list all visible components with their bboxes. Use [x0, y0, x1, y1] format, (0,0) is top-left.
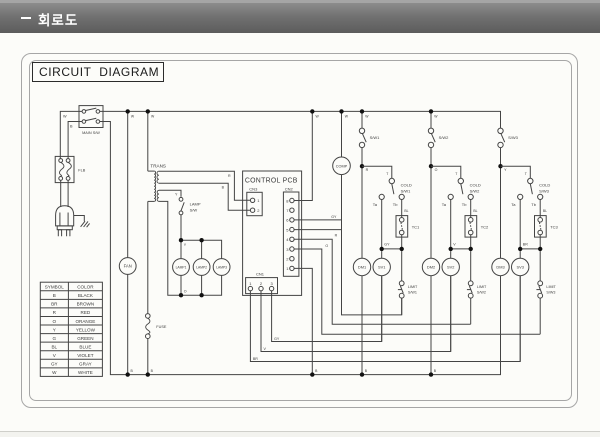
svg-text:S/W: S/W [190, 207, 198, 212]
node bus BR channel 3 [518, 243, 542, 251]
svg-text:O: O [184, 289, 187, 293]
valve SV2 [442, 251, 459, 276]
wire SV3 down [519, 276, 521, 362]
wire CN2 pin6 GY to compressor line [294, 215, 341, 220]
svg-text:S/W3: S/W3 [508, 135, 519, 140]
node bus V channel 2 [449, 243, 473, 251]
junction node Y channel 3 [498, 164, 507, 172]
svg-text:W: W [63, 115, 67, 119]
motor DM2 [422, 258, 439, 275]
svg-text:B: B [365, 369, 368, 373]
wire Tb contact to TC3 [540, 200, 547, 218]
wire branch to COLD S/W2 [431, 166, 461, 178]
svg-text:WHITE: WHITE [78, 370, 93, 375]
switch S/W3 [498, 128, 519, 147]
wire branch to COLD S/W3 [501, 166, 531, 178]
svg-text:Ta: Ta [442, 202, 447, 207]
svg-text:T: T [455, 172, 457, 176]
svg-text:B: B [53, 293, 56, 298]
svg-text:GY: GY [51, 362, 58, 367]
panel inner border [29, 60, 572, 401]
wire DM3 to B bus [500, 276, 502, 375]
wire lamp top bus Y [179, 215, 222, 259]
wire DM1 to B bus [361, 276, 363, 375]
svg-text:BR: BR [51, 302, 58, 307]
svg-text:ORANGE: ORANGE [75, 319, 95, 324]
svg-text:LAMP: LAMP [190, 202, 201, 207]
svg-text:4: 4 [286, 237, 289, 242]
svg-text:LIMIT: LIMIT [408, 285, 418, 289]
lamp LAMP1 [173, 259, 190, 276]
svg-text:B: B [222, 186, 225, 190]
motor DM1 [353, 258, 370, 275]
svg-text:BL: BL [404, 209, 408, 213]
svg-text:CN3: CN3 [249, 187, 258, 192]
svg-text:W: W [151, 115, 155, 119]
svg-text:Y: Y [175, 192, 178, 196]
fan motor FAN [119, 258, 136, 275]
compressor COMP [333, 111, 351, 174]
svg-text:B: B [151, 369, 154, 373]
wire FLB to plug [61, 180, 68, 207]
svg-text:W: W [365, 115, 369, 119]
wire Y secondary tap to lamp switch [159, 190, 181, 197]
fuse FUSE [146, 314, 167, 375]
svg-text:Ta: Ta [373, 202, 378, 207]
valve SV1 [373, 251, 390, 276]
wire SV1 down [381, 276, 383, 342]
lamp LAMP3 [213, 259, 230, 276]
svg-text:VIOLET: VIOLET [77, 353, 94, 358]
svg-text:W: W [434, 115, 438, 119]
control board CONTROL PCB [243, 171, 302, 295]
svg-text:LAMP2: LAMP2 [196, 266, 207, 270]
svg-text:B: B [315, 369, 318, 373]
svg-text:SYMBOL: SYMBOL [45, 285, 65, 290]
svg-text:FLB: FLB [78, 169, 85, 173]
svg-text:Tb: Tb [462, 202, 467, 207]
svg-text:W: W [316, 115, 320, 119]
wire CN2 pin3 O to LIMIT S/W3 [294, 244, 540, 334]
svg-text:TC2: TC2 [481, 224, 489, 229]
wire CN2 pin1 to B bus [294, 268, 312, 374]
svg-text:S/W1: S/W1 [401, 188, 412, 193]
svg-text:Tb: Tb [531, 202, 536, 207]
svg-text:S/W2: S/W2 [470, 188, 481, 193]
wire LIMIT S/W2 down [470, 298, 472, 324]
wire Ta contact down [381, 200, 383, 249]
svg-text:DM2: DM2 [427, 265, 435, 270]
svg-text:BR: BR [253, 357, 258, 361]
switch S/W2 [428, 128, 449, 147]
svg-text:LAMP3: LAMP3 [216, 266, 227, 270]
svg-text:W: W [345, 115, 349, 119]
svg-text:CONTROL PCB: CONTROL PCB [245, 178, 298, 185]
transformer TRANS [150, 164, 166, 202]
svg-text:W: W [52, 370, 57, 375]
svg-text:B: B [131, 369, 134, 373]
connector CN1 [246, 272, 278, 294]
title box CIRCUIT DIAGRAM [32, 62, 164, 82]
svg-text:O: O [435, 168, 438, 172]
svg-text:6: 6 [286, 218, 289, 223]
wire S/W1 drop to DM1 [361, 111, 363, 258]
limit switch LIMIT S/W2 [467, 251, 487, 298]
svg-text:S/W2: S/W2 [439, 135, 450, 140]
svg-text:CN2: CN2 [285, 187, 294, 192]
svg-text:LIMIT: LIMIT [477, 285, 487, 289]
wire TRANS primary feed [148, 111, 154, 313]
svg-text:V: V [53, 353, 57, 358]
svg-text:S/W1: S/W1 [370, 135, 381, 140]
thermostat TC2 [465, 216, 489, 238]
svg-text:CN1: CN1 [256, 272, 265, 277]
svg-text:BR: BR [523, 243, 528, 247]
wire W top bus [100, 111, 501, 128]
cold switch COLD S/W1 [373, 178, 412, 207]
svg-text:BLACK: BLACK [78, 293, 94, 298]
svg-text:FAN: FAN [124, 264, 132, 269]
svg-text:YELLOW: YELLOW [76, 327, 96, 332]
node B bus junctions [126, 369, 437, 377]
svg-text:FUSE: FUSE [156, 325, 167, 329]
wire CN2 pin5 to compressor line [294, 229, 341, 231]
svg-text:8: 8 [286, 198, 289, 203]
svg-text:LAMP1: LAMP1 [176, 266, 187, 270]
svg-text:COLD: COLD [401, 183, 412, 188]
wire W bus left segment to plug side [60, 111, 82, 158]
svg-text:Ta: Ta [511, 202, 516, 207]
wire secondary return to lamp bus [159, 201, 181, 295]
svg-text:2: 2 [257, 208, 260, 213]
switch S/W1 [359, 128, 380, 147]
svg-text:3: 3 [286, 247, 289, 252]
svg-text:1: 1 [286, 266, 289, 271]
svg-text:S/W3: S/W3 [539, 188, 550, 193]
panel outer border [21, 53, 578, 408]
svg-text:S/W1: S/W1 [408, 291, 417, 295]
svg-text:GY: GY [274, 337, 280, 341]
svg-text:BL: BL [543, 209, 547, 213]
svg-text:GY: GY [384, 243, 390, 247]
wire branch to COLD S/W1 [362, 166, 392, 178]
svg-text:7: 7 [286, 208, 289, 213]
svg-text:2: 2 [260, 281, 263, 286]
wire Ta contact down [450, 200, 452, 249]
svg-text:SV1: SV1 [378, 265, 385, 270]
svg-text:3: 3 [270, 281, 273, 286]
bottom footer strip [0, 431, 600, 437]
svg-text:SV3: SV3 [517, 265, 524, 270]
svg-text:DM1: DM1 [358, 265, 366, 270]
svg-text:V: V [264, 347, 267, 351]
cold switch COLD S/W3 [511, 178, 550, 207]
svg-text:SV2: SV2 [447, 265, 454, 270]
wire lamp bottom bus O [179, 275, 222, 297]
wire CN2 pin4 R to LIMIT S/W2 [294, 234, 471, 325]
wire Tb contact to TC2 [471, 200, 478, 218]
svg-text:COLD: COLD [470, 183, 481, 188]
wire DM2 to B bus [430, 276, 432, 375]
plug [56, 206, 74, 236]
wire Ta contact down [519, 200, 521, 249]
svg-text:TC3: TC3 [550, 224, 558, 229]
wire B return from MAIN S/W lower pole [68, 122, 82, 159]
svg-text:5: 5 [286, 227, 289, 232]
svg-text:Y: Y [184, 243, 187, 247]
wire COMP GY to LIMIT S/W1 [342, 175, 402, 315]
wire color legend table SYMBOL/COLOR [40, 282, 102, 376]
svg-text:BROWN: BROWN [77, 302, 95, 307]
svg-text:O: O [325, 244, 328, 248]
connector CN2 [283, 187, 299, 277]
lamp switch LAMP S/W [179, 197, 201, 214]
noise filter FLB [55, 156, 86, 182]
svg-text:1: 1 [257, 198, 260, 203]
cold switch COLD S/W2 [442, 178, 481, 207]
wire CN2 pin8 to W bus [294, 111, 312, 200]
svg-text:B: B [70, 124, 73, 128]
node bus GY channel 1 [380, 243, 404, 251]
lamp LAMP2 [193, 259, 210, 276]
svg-text:RED: RED [81, 310, 91, 315]
svg-text:R: R [53, 310, 57, 315]
svg-text:W: W [131, 115, 135, 119]
svg-text:TC1: TC1 [412, 224, 420, 229]
main switch MAIN S/W [79, 106, 103, 135]
svg-text:BL: BL [51, 344, 57, 349]
svg-text:GY: GY [331, 215, 337, 219]
svg-text:DM3: DM3 [496, 265, 504, 270]
svg-text:GRAY: GRAY [79, 362, 92, 367]
connector CN3 [247, 187, 262, 216]
valve SV3 [512, 251, 529, 276]
wire LIMIT S/W1 down [401, 298, 403, 315]
svg-text:BLUE: BLUE [79, 344, 91, 349]
thermostat TC3 [535, 216, 559, 238]
svg-text:COLOR: COLOR [77, 285, 94, 290]
svg-text:G: G [53, 336, 57, 341]
wire B bottom bus [100, 122, 501, 375]
junction node R channel 1 [360, 164, 369, 172]
wire TC3 down to node [539, 235, 541, 249]
svg-text:S/W3: S/W3 [546, 291, 555, 295]
svg-text:S/W2: S/W2 [477, 291, 486, 295]
junction node O channel 2 [429, 164, 438, 172]
limit switch LIMIT S/W3 [536, 251, 556, 298]
svg-text:2: 2 [286, 257, 289, 262]
svg-text:TRANS: TRANS [150, 164, 166, 169]
svg-text:GREEN: GREEN [77, 336, 93, 341]
motor DM3 [492, 258, 509, 275]
svg-text:COLD: COLD [539, 183, 550, 188]
wire B secondary tap to CN3 pin2 [159, 183, 250, 210]
svg-text:BL: BL [473, 209, 477, 213]
svg-text:Y: Y [53, 327, 56, 332]
wire CN1 pin1 BR to SV3 [250, 276, 520, 362]
svg-text:R: R [335, 234, 338, 238]
ground [74, 216, 90, 228]
wire TC1 down to node [401, 235, 403, 249]
wire TC2 down to node [470, 235, 472, 249]
svg-text:O: O [53, 319, 57, 324]
wire FAN branch [127, 111, 129, 374]
wire Tb contact to TC1 [402, 200, 409, 218]
thermostat TC1 [396, 216, 420, 238]
svg-text:MAIN S/W: MAIN S/W [82, 131, 100, 135]
svg-text:T: T [525, 172, 527, 176]
svg-text:1: 1 [249, 281, 252, 286]
header bar 회로도 [0, 0, 600, 3]
wire CN1 pin2 V to SV2 [261, 276, 451, 352]
svg-text:B: B [434, 369, 437, 373]
svg-text:R: R [228, 174, 231, 178]
svg-text:Y: Y [504, 168, 507, 172]
wire R secondary tap to CN3 pin1 [159, 171, 250, 200]
wire S/W3 drop to DM3 [500, 111, 502, 258]
svg-text:V: V [453, 243, 456, 247]
svg-text:T: T [386, 172, 388, 176]
svg-text:R: R [366, 168, 369, 172]
svg-text:LIMIT: LIMIT [546, 285, 556, 289]
limit switch LIMIT S/W1 [398, 251, 418, 298]
wire S/W2 drop to DM2 [430, 111, 432, 258]
svg-text:Tb: Tb [393, 202, 398, 207]
wire CN1 pin3 GY to SV1 [272, 276, 382, 342]
svg-text:COMP: COMP [336, 164, 348, 168]
node W bus junctions [126, 109, 439, 118]
wire SV2 down [450, 276, 452, 352]
wire LIMIT S/W3 down [539, 298, 541, 334]
